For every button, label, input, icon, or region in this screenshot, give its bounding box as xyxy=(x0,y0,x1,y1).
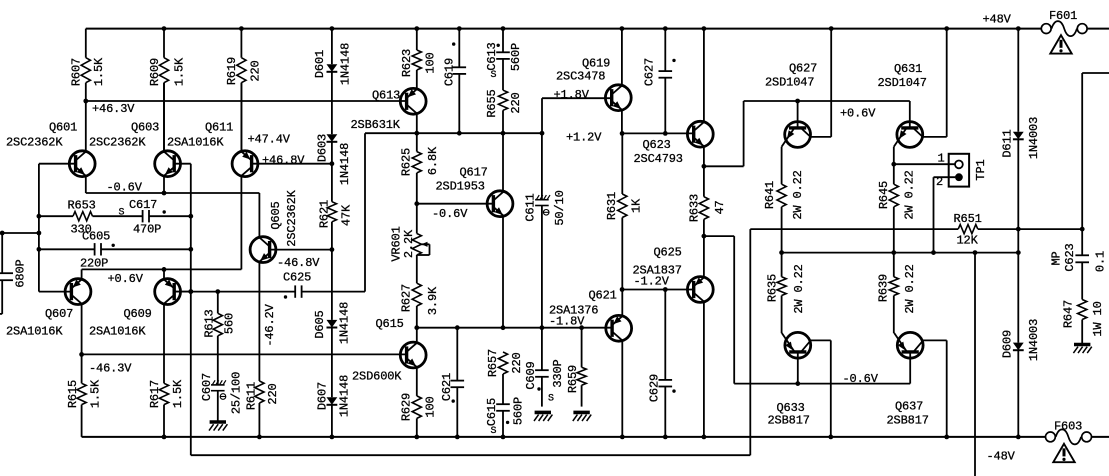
svg-text:-48V: -48V xyxy=(987,450,1016,464)
transistor Q605 2SC2362K current source xyxy=(250,189,334,381)
svg-text:2SC4793: 2SC4793 xyxy=(634,152,683,166)
diode D609 1N4003 xyxy=(1000,253,1041,437)
svg-text:R619: R619 xyxy=(225,57,239,85)
svg-text:Q619: Q619 xyxy=(582,57,610,71)
capacitor C627 xyxy=(642,29,675,134)
capacitor C623 0.1 MP xyxy=(1049,243,1107,299)
svg-text:F603: F603 xyxy=(1054,420,1082,434)
svg-text:-0.6V: -0.6V xyxy=(432,207,468,221)
resistor R641 0.22 2W xyxy=(763,170,805,252)
resistor R655 xyxy=(485,89,523,133)
wire +0.6V bias line (drivers) xyxy=(744,99,910,104)
transistor Q637 2SB817 xyxy=(887,332,947,437)
svg-text:1N4003: 1N4003 xyxy=(1027,117,1041,159)
svg-text:2SC2362K: 2SC2362K xyxy=(6,136,63,150)
svg-text:Q605: Q605 xyxy=(269,201,283,229)
svg-text:2.2K: 2.2K xyxy=(402,229,416,258)
svg-text:-0.6V: -0.6V xyxy=(843,372,879,386)
resistor R627 3.9K xyxy=(399,255,440,328)
svg-text:R645: R645 xyxy=(877,181,891,209)
wire VAS supply rail xyxy=(365,131,544,136)
svg-text:Q625: Q625 xyxy=(654,246,682,260)
svg-text:Q623: Q623 xyxy=(643,138,671,152)
svg-text:C609: C609 xyxy=(524,361,538,389)
svg-text:Q611: Q611 xyxy=(205,121,233,135)
transistor Q611 2SA1016K xyxy=(167,83,332,270)
svg-text:R617: R617 xyxy=(148,380,162,408)
resistor R613 / capacitor C607 feedback shunt xyxy=(200,292,244,421)
svg-text:R613: R613 xyxy=(202,309,216,337)
resistor R607 xyxy=(69,29,106,101)
svg-text:-46.8V: -46.8V xyxy=(277,256,320,270)
svg-text:1N4148: 1N4148 xyxy=(338,43,352,85)
svg-text:S: S xyxy=(119,208,125,219)
svg-text:D603: D603 xyxy=(315,134,329,162)
svg-text:R635: R635 xyxy=(765,274,779,302)
svg-text:+1.2V: +1.2V xyxy=(566,131,602,145)
resistor R651 12K feedback xyxy=(750,212,1084,248)
wire -48V bottom rail xyxy=(82,435,1109,440)
svg-text:560P: 560P xyxy=(509,43,523,71)
svg-text:Q627: Q627 xyxy=(789,62,817,76)
svg-text:C613: C613 xyxy=(485,42,499,70)
wire Q623 emitter to bias riser xyxy=(702,101,744,169)
svg-text:2: 2 xyxy=(936,175,943,189)
svg-text:2W 0.22: 2W 0.22 xyxy=(902,170,916,219)
svg-text:D605: D605 xyxy=(313,310,327,338)
svg-text:0.1: 0.1 xyxy=(1093,251,1107,272)
svg-text:C623: C623 xyxy=(1063,243,1077,271)
svg-text:25/100: 25/100 xyxy=(230,372,244,414)
wire feedback vertical (to Q603 base) xyxy=(188,164,193,456)
transistor Q631 2SD1047 xyxy=(878,29,947,165)
svg-text:R611: R611 xyxy=(244,382,258,410)
resistor R625 xyxy=(399,133,440,203)
capacitor C619 xyxy=(442,29,466,134)
resistor R609 xyxy=(148,29,187,151)
ground (R659) xyxy=(573,411,589,415)
resistor R611 xyxy=(244,381,280,437)
svg-text:2SC2362K: 2SC2362K xyxy=(89,136,146,150)
svg-text:+0.6V: +0.6V xyxy=(840,107,876,121)
transistor Q601 2SC2362K xyxy=(6,101,95,193)
svg-text:Q621: Q621 xyxy=(589,289,617,303)
resistor R635 0.22 2W xyxy=(765,253,806,334)
svg-text:R651: R651 xyxy=(954,212,982,226)
svg-text:Q603: Q603 xyxy=(131,121,159,135)
resistor R657 xyxy=(486,349,524,377)
resistor R633 47 xyxy=(687,166,727,236)
svg-text:+46.8V: +46.8V xyxy=(262,154,305,168)
svg-text:220: 220 xyxy=(266,383,280,404)
svg-text:220P: 220P xyxy=(80,257,108,271)
svg-text:1.5K: 1.5K xyxy=(171,379,185,408)
resistor R631 1K xyxy=(605,133,644,289)
wire feedback bottom run xyxy=(191,454,751,456)
svg-text:12K: 12K xyxy=(957,234,979,248)
wire input node vertical xyxy=(37,164,42,292)
capacitor C611 50/10 xyxy=(523,133,567,328)
svg-text:1W 10: 1W 10 xyxy=(1091,301,1105,336)
transistor Q625 2SA1837 xyxy=(633,236,714,437)
svg-text:Q617: Q617 xyxy=(460,166,488,180)
wire output rail xyxy=(779,250,1021,255)
svg-text:C621: C621 xyxy=(440,373,454,401)
svg-text:3.9K: 3.9K xyxy=(426,286,440,315)
capacitor 680P (input) xyxy=(0,233,27,314)
wire VAS output line xyxy=(417,325,612,330)
wire +1.2V line xyxy=(620,131,694,136)
svg-text:+46.3V: +46.3V xyxy=(92,102,135,116)
wire output-stage base bus xyxy=(734,381,910,386)
svg-text:470P: 470P xyxy=(133,223,161,237)
wire bootstrap riser (C625 to VAS rail) xyxy=(364,133,366,291)
svg-text:2W 0.22: 2W 0.22 xyxy=(791,170,805,219)
resistor R629 xyxy=(399,393,437,437)
svg-text:D611: D611 xyxy=(1000,129,1014,157)
wire R633 bottom to output riser xyxy=(702,234,735,384)
svg-text:D601: D601 xyxy=(313,50,327,78)
svg-text:R621: R621 xyxy=(317,200,331,228)
wire Q625 base line xyxy=(620,287,694,292)
warning triangle (bottom) xyxy=(1053,444,1074,462)
wire Q609 base / C625 line xyxy=(173,289,365,294)
transistor Q615 2SD600K VAS xyxy=(352,317,426,396)
capacitor C605 220P xyxy=(39,230,193,271)
svg-text:2SD600K: 2SD600K xyxy=(352,370,402,384)
svg-text:Q613: Q613 xyxy=(372,89,400,103)
svg-text:-1.8V: -1.8V xyxy=(549,315,585,329)
capacitor C615 560P xyxy=(485,374,526,437)
test point TP1 xyxy=(894,152,988,253)
svg-text:220: 220 xyxy=(248,60,262,81)
transistor Q617 2SD1953 xyxy=(414,133,513,328)
capacitor C609 330P xyxy=(524,328,565,407)
resistor R653 / capacitor C617 feedback lag xyxy=(39,198,193,237)
svg-text:Q601: Q601 xyxy=(49,121,77,135)
transistor Q633 2SB817 xyxy=(768,332,831,437)
wire output down (to speaker) xyxy=(974,253,976,476)
svg-text:Q637: Q637 xyxy=(895,400,923,414)
transistor Q627 2SD1047 xyxy=(765,29,831,185)
ground (C609) xyxy=(535,411,551,415)
svg-text:R631: R631 xyxy=(605,192,619,220)
svg-text:C619: C619 xyxy=(442,58,456,86)
svg-text:47: 47 xyxy=(713,200,727,214)
svg-text:47K: 47K xyxy=(339,204,353,226)
svg-text:2SC2362K: 2SC2362K xyxy=(285,189,299,246)
svg-text:S: S xyxy=(491,426,497,437)
wire Q619 base riser xyxy=(541,98,543,133)
svg-text:+48V: +48V xyxy=(983,13,1012,27)
ground (C607) xyxy=(210,420,226,424)
svg-text:MP: MP xyxy=(1049,251,1063,265)
resistor R645 0.22 2W xyxy=(877,162,917,253)
wire emitter bus Q601/Q603 xyxy=(86,191,260,196)
svg-text:D609: D609 xyxy=(1000,330,1014,358)
svg-text:1: 1 xyxy=(938,152,945,166)
svg-text:2SA1016K: 2SA1016K xyxy=(167,136,224,150)
svg-text:R633: R633 xyxy=(687,194,701,222)
svg-text:C627: C627 xyxy=(642,58,656,86)
svg-text:2SD1047: 2SD1047 xyxy=(765,76,814,90)
svg-text:R641: R641 xyxy=(763,181,777,209)
svg-text:2W 0.22: 2W 0.22 xyxy=(903,264,917,313)
svg-text:1.5K: 1.5K xyxy=(92,57,106,86)
trimmer VR601 2.2K xyxy=(389,204,429,262)
resistor R623 xyxy=(400,29,438,78)
svg-text:F601: F601 xyxy=(1049,9,1077,23)
wire output right link xyxy=(1082,73,1109,255)
diode D601 xyxy=(313,29,353,135)
svg-text:2SB817: 2SB817 xyxy=(768,414,810,428)
svg-text:R625: R625 xyxy=(399,148,413,176)
svg-text:-46.3V: -46.3V xyxy=(89,362,132,376)
wire input line xyxy=(0,231,39,236)
svg-text:1.5K: 1.5K xyxy=(172,57,186,86)
svg-text:1N4148: 1N4148 xyxy=(338,143,352,185)
svg-text:+0.6V: +0.6V xyxy=(108,272,144,286)
svg-text:2SD1047: 2SD1047 xyxy=(878,76,927,90)
resistor R615 xyxy=(66,354,103,437)
svg-text:220: 220 xyxy=(510,352,524,373)
svg-text:2SD1953: 2SD1953 xyxy=(436,180,485,194)
warning triangle (top) xyxy=(1050,35,1071,53)
svg-text:Q607: Q607 xyxy=(45,307,73,321)
svg-text:R609: R609 xyxy=(148,58,162,86)
wire +0.6V emitter bus Q607/Q609 xyxy=(82,267,242,279)
svg-text:1N4148: 1N4148 xyxy=(337,302,351,344)
diode D603 xyxy=(315,134,352,185)
svg-text:R653: R653 xyxy=(68,199,96,213)
svg-text:-1.2V: -1.2V xyxy=(634,275,670,289)
capacitor C629 xyxy=(647,290,675,437)
svg-text:TP1: TP1 xyxy=(974,159,988,180)
diode D611 1N4003 xyxy=(1000,29,1041,253)
wire -46.3V line (VAS base) xyxy=(79,352,406,357)
svg-text:-46.2V: -46.2V xyxy=(263,303,277,346)
svg-text:R627: R627 xyxy=(399,284,413,312)
svg-text:R623: R623 xyxy=(400,49,414,77)
capacitor C613 560P xyxy=(485,29,523,91)
resistor R647 10 1W xyxy=(1061,300,1105,344)
diode D607 xyxy=(315,375,351,437)
svg-text:Q631: Q631 xyxy=(894,62,922,76)
svg-text:220: 220 xyxy=(509,92,523,113)
svg-text:2SB817: 2SB817 xyxy=(887,414,929,428)
ground (R647) xyxy=(1074,343,1090,347)
transistor Q603 2SC2362K xyxy=(89,83,191,193)
svg-text:S: S xyxy=(491,70,497,81)
svg-text:100: 100 xyxy=(423,52,437,73)
svg-text:C629: C629 xyxy=(647,374,661,402)
svg-text:Q615: Q615 xyxy=(376,317,404,331)
svg-text:-0.6V: -0.6V xyxy=(107,181,143,195)
svg-text:R629: R629 xyxy=(399,393,413,421)
resistor R619 xyxy=(225,29,263,152)
wire +46.3V line xyxy=(83,99,406,104)
svg-text:560P: 560P xyxy=(511,397,525,425)
capacitor C621 xyxy=(440,328,464,437)
svg-text:2SA1016K: 2SA1016K xyxy=(6,325,63,339)
transistor Q619 2SC3478 xyxy=(542,29,631,134)
transistor Q621 2SA1376 xyxy=(549,289,632,437)
svg-text:+1.8V: +1.8V xyxy=(554,88,590,102)
wire feedback riser xyxy=(749,229,751,455)
svg-text:1N4148: 1N4148 xyxy=(337,375,351,417)
svg-text:R639: R639 xyxy=(876,274,890,302)
resistor R639 0.22 2W xyxy=(876,253,917,334)
svg-text:C611: C611 xyxy=(523,193,537,221)
svg-text:+47.4V: +47.4V xyxy=(248,133,291,147)
transistor Q623 2SC4793 xyxy=(634,29,714,167)
svg-text:2W 0.22: 2W 0.22 xyxy=(792,264,806,313)
diode D605 xyxy=(313,250,352,398)
svg-text:R659: R659 xyxy=(566,365,580,393)
svg-text:Q609: Q609 xyxy=(124,307,152,321)
svg-text:2SB631K: 2SB631K xyxy=(351,118,401,132)
svg-text:C607: C607 xyxy=(200,373,214,401)
svg-text:6.8K: 6.8K xyxy=(426,146,440,175)
svg-text:C617: C617 xyxy=(129,198,157,212)
transistor Q613 2SB631K xyxy=(351,70,427,133)
svg-text:100: 100 xyxy=(423,396,437,417)
svg-text:C605: C605 xyxy=(82,230,110,244)
svg-text:R615: R615 xyxy=(66,380,80,408)
svg-text:330P: 330P xyxy=(551,359,565,387)
transistor Q607 2SA1016K xyxy=(6,279,91,355)
svg-text:R655: R655 xyxy=(485,89,499,117)
svg-text:1N4003: 1N4003 xyxy=(1027,319,1041,361)
capacitor C625 xyxy=(277,256,320,299)
svg-text:680P: 680P xyxy=(13,259,27,287)
fuse F601 xyxy=(1041,9,1087,36)
svg-text:1K: 1K xyxy=(629,198,643,213)
resistor R621 xyxy=(317,164,353,250)
wire +48V top rail xyxy=(86,26,1109,31)
resistor R659 xyxy=(566,328,586,407)
svg-text:R607: R607 xyxy=(69,58,83,86)
svg-text:560: 560 xyxy=(222,313,236,334)
resistor R617 xyxy=(148,379,185,437)
svg-text:S: S xyxy=(548,394,554,405)
svg-text:C615: C615 xyxy=(485,398,499,426)
svg-text:2SC3478: 2SC3478 xyxy=(556,70,605,84)
svg-text:2SA1016K: 2SA1016K xyxy=(89,325,146,339)
svg-text:1.5K: 1.5K xyxy=(88,379,102,408)
svg-text:50/10: 50/10 xyxy=(553,190,567,225)
svg-text:C625: C625 xyxy=(283,271,311,285)
svg-text:R647: R647 xyxy=(1061,300,1075,328)
transistor Q609 2SA1016K xyxy=(89,269,191,383)
fuse F603 xyxy=(1046,420,1092,445)
svg-text:D607: D607 xyxy=(315,382,329,410)
svg-text:R657: R657 xyxy=(486,349,500,377)
